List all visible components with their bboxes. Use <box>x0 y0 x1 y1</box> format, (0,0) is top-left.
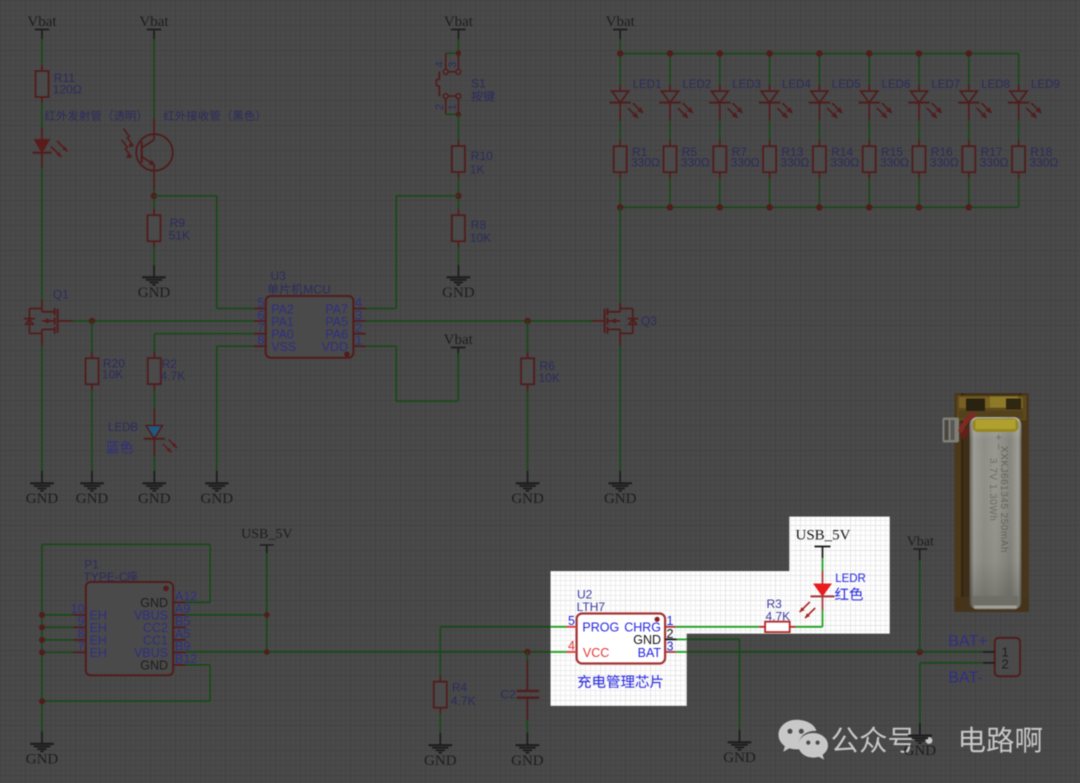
battery pouch top (golden tape with dark marks) <box>957 396 1027 421</box>
svg-text:+ −: + − <box>992 434 1004 450</box>
battery cell body (silver) <box>970 417 1022 610</box>
watermark text 公众号·电路啊 <box>832 727 858 752</box>
battery photo backdrop (wood) <box>954 393 1028 612</box>
watermark WeChat icon <box>779 720 829 760</box>
battery connector with red wires <box>943 412 979 443</box>
svg-text:XXKJ661345 250mAh: XXKJ661345 250mAh <box>998 446 1009 553</box>
svg-text:3.7V 1.30Wh: 3.7V 1.30Wh <box>987 458 998 521</box>
